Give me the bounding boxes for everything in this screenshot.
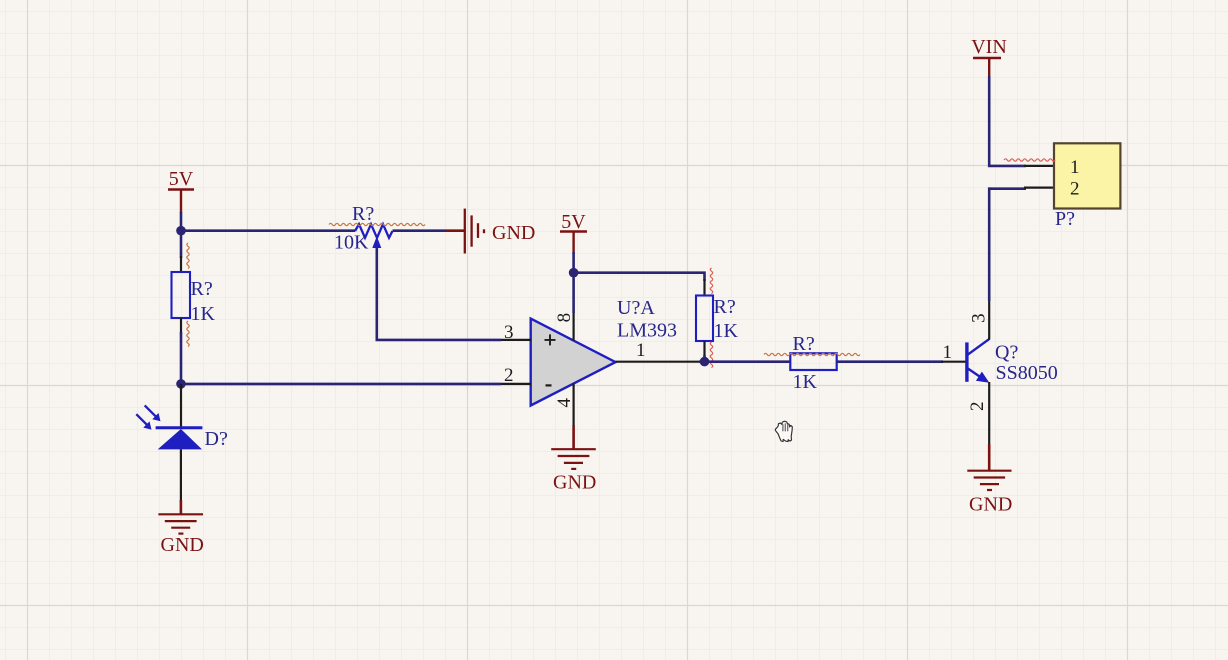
pin 8 (op-amp V+) <box>572 311 574 341</box>
svg-text:4: 4 <box>554 398 575 408</box>
op-amp minus marking <box>546 384 552 386</box>
svg-text:GND: GND <box>161 534 204 556</box>
svg-text:1K: 1K <box>191 303 216 325</box>
svg-text:1: 1 <box>943 342 953 363</box>
squiggle R4 <box>764 353 860 355</box>
pin 1 (op-amp output) <box>616 361 701 363</box>
svg-text:1: 1 <box>636 340 646 361</box>
svg-text:2: 2 <box>1070 179 1080 200</box>
pin 4 (op-amp V-) <box>572 384 574 427</box>
wire R3 to node D <box>703 355 706 362</box>
photodiode light arrow 1 <box>145 405 156 416</box>
wire 5V to node A <box>180 212 183 230</box>
svg-text:R?: R? <box>714 296 736 318</box>
pin 2 (Q1 emitter) <box>988 382 990 446</box>
svg-text:R?: R? <box>793 333 815 355</box>
squiggle R3 lower <box>710 342 712 368</box>
svg-text:5V: 5V <box>169 168 194 190</box>
svg-text:GND: GND <box>969 494 1012 516</box>
pin R1 bottom <box>180 318 182 334</box>
pin 3 (op-amp +) <box>501 339 531 341</box>
svg-text:R?: R? <box>191 278 213 300</box>
svg-text:SS8050: SS8050 <box>996 362 1058 384</box>
resistor R4 1K body <box>790 353 836 370</box>
wire node C to R3 <box>574 273 705 281</box>
wire node D to R4 <box>705 360 791 363</box>
svg-text:2: 2 <box>967 402 988 412</box>
svg-text:D?: D? <box>205 428 228 450</box>
svg-text:LM393: LM393 <box>617 319 677 341</box>
svg-text:2: 2 <box>504 365 514 386</box>
wire pot to GND (right) <box>393 229 447 232</box>
pin 2 (op-amp -) <box>501 383 531 385</box>
wire wiper to op-amp pin 3 <box>377 248 501 340</box>
svg-text:VIN: VIN <box>971 36 1007 58</box>
svg-text:1K: 1K <box>714 320 739 342</box>
resistor R1 1K body <box>172 272 191 318</box>
node A junction (5V rail / R1 / pot) <box>176 226 186 236</box>
svg-text:U?A: U?A <box>617 297 655 319</box>
wire emitter to GND <box>988 444 991 471</box>
wire node A to R1 <box>180 231 183 258</box>
wire R4 to Q1 base <box>837 360 943 363</box>
svg-text:8: 8 <box>554 313 575 323</box>
wire node C down to pin 8 <box>572 273 575 313</box>
transistor Q? SS8050 base bar <box>965 342 968 381</box>
compile-error squiggle under pot <box>329 223 425 225</box>
ground symbol (op-amp) <box>551 449 596 469</box>
wire photodiode to GND <box>180 449 182 502</box>
node C junction (5V / pin8 / R3) <box>569 268 579 278</box>
wire pin4 to GND <box>572 425 575 449</box>
wire node A to potentiometer <box>181 229 355 232</box>
wire node B to op-amp pin 2 <box>181 383 501 386</box>
squiggle R3 upper <box>710 268 712 294</box>
pin R1 top <box>180 256 182 272</box>
wire 5V to node C <box>572 252 575 273</box>
mouse cursor (pan hand) <box>775 421 792 441</box>
connector P? body <box>1054 143 1120 208</box>
svg-text:R?: R? <box>352 203 374 225</box>
squiggle connector pin1 <box>1004 159 1055 161</box>
svg-text:1K: 1K <box>793 371 818 393</box>
pin R3 top <box>703 279 705 296</box>
pin 3 (Q1 collector) <box>988 299 990 340</box>
ground symbol (photodiode) <box>158 514 203 533</box>
squiggle R1 lower <box>187 321 189 347</box>
pin 2 (connector) <box>1024 187 1054 189</box>
svg-text:P?: P? <box>1055 208 1075 230</box>
pin 1 (connector) <box>1024 165 1054 167</box>
potentiometer R? 10K <box>355 224 393 238</box>
pin R3 bottom <box>703 341 705 357</box>
op-amp plus marking <box>545 334 556 345</box>
squiggle R1 upper <box>187 243 189 269</box>
photodiode light arrow 2 <box>136 414 147 425</box>
svg-text:GND: GND <box>553 472 596 494</box>
svg-text:1: 1 <box>1070 157 1080 178</box>
svg-text:5V: 5V <box>561 211 586 233</box>
wire node B to photodiode <box>180 384 182 428</box>
pin 1 (Q1 base) <box>941 361 966 363</box>
svg-text:10K: 10K <box>334 231 369 253</box>
op-amp U?A body <box>531 319 616 406</box>
transistor emitter arrowhead <box>976 372 989 383</box>
node D junction (output / R3 / R4) <box>700 357 710 367</box>
svg-text:3: 3 <box>969 313 990 323</box>
wire R1 to node B <box>180 332 183 383</box>
wire op-amp output to node D <box>699 360 705 363</box>
transistor collector stroke <box>968 339 990 355</box>
power port 5V (left) <box>168 168 194 213</box>
photodiode D? cathode bar <box>156 426 203 429</box>
node B junction (R1 / D1 / op-amp pin 2) <box>176 379 186 389</box>
svg-text:GND: GND <box>492 222 535 244</box>
ground symbol (rotated, pot) <box>465 209 484 254</box>
potentiometer wiper arrow <box>372 236 381 248</box>
svg-text:Q?: Q? <box>995 342 1018 364</box>
wire collector to connector <box>988 187 991 301</box>
ground symbol (transistor) <box>967 471 1011 490</box>
photodiode D? triangle <box>158 429 202 449</box>
resistor R3 1K body <box>696 296 713 342</box>
wire VIN to connector pin 1 <box>989 76 1026 166</box>
transistor emitter stroke <box>968 368 985 379</box>
svg-text:3: 3 <box>504 322 514 343</box>
